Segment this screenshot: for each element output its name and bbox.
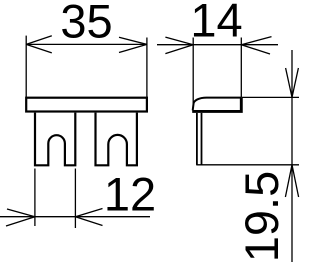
- dimension 12: dimension line: [0, 216, 150, 218]
- dimension 35: dimension line: [26, 43, 147, 45]
- dimension 12: extension lines: [35, 169, 76, 229]
- side view: profile top thin edge with rounded corner: [193, 98, 242, 111]
- svg-text:14: 14: [190, 0, 242, 46]
- dimension 14: extension lines: [193, 38, 241, 105]
- dimension 35: left arrowhead: [26, 36, 52, 53]
- side view: profile thick bottom and right edge: [192, 98, 241, 112]
- dimension 35: right arrowhead: [119, 37, 147, 52]
- dimension 35: extension lines: [26, 36, 147, 98]
- front view: busbar top body: [26, 98, 147, 112]
- dimension 19.5: vertical dimension line: [291, 50, 293, 262]
- dimension 14: dimension line with outside tails: [157, 44, 278, 46]
- side view: pin: [197, 113, 202, 165]
- dimension 12: right arrowhead (outside): [75, 209, 102, 226]
- dimension 14: left arrowhead (outside): [165, 37, 193, 54]
- dimension 19.5: bottom arrowhead (outside, pointing up): [285, 165, 298, 197]
- dimension 12: left arrowhead (outside): [6, 209, 35, 226]
- dimension 14: right arrowhead (outside): [241, 37, 271, 54]
- svg-text:35: 35: [60, 0, 112, 47]
- dimension 19.5: top arrowhead (outside, pointing down): [286, 68, 299, 97]
- svg-text:12: 12: [104, 167, 156, 220]
- svg-text:19.5: 19.5: [235, 171, 288, 262]
- front view: right prong with U-notch: [96, 113, 137, 166]
- dimension 19.5: extension lines: [196, 97, 299, 164]
- front view: left prong with U-notch: [35, 113, 75, 166]
